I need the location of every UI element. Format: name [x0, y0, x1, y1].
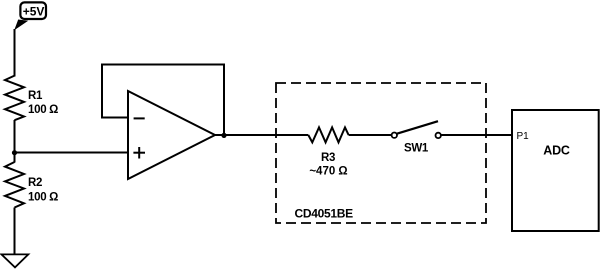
svg-text:~470 Ω: ~470 Ω: [309, 166, 347, 178]
wire op-amp output to R3: [215, 134, 308, 136]
wire SW1 to ADC pin P1: [441, 134, 512, 136]
resistor R1: [5, 76, 24, 121]
svg-text:+5V: +5V: [23, 5, 45, 19]
label R1 value: [28, 90, 58, 116]
wire R2 to ground: [14, 208, 16, 255]
power supply +5V: [14, 2, 46, 30]
node A junction dot: [12, 150, 17, 155]
svg-text:SW1: SW1: [404, 143, 429, 155]
resistor R3: [308, 127, 348, 142]
feedback wire output to inverting input: [102, 65, 224, 136]
svg-text:CD4051BE: CD4051BE: [295, 207, 354, 221]
ground: [2, 254, 29, 267]
svg-text:ADC: ADC: [543, 143, 570, 157]
wire +5V to R1: [14, 29, 16, 77]
svg-text:100 Ω: 100 Ω: [28, 192, 58, 204]
svg-text:P1: P1: [517, 131, 530, 142]
resistor R2: [5, 162, 24, 208]
wire R1 to node A: [14, 120, 16, 153]
svg-text:R1: R1: [28, 90, 43, 102]
op-amp U1: [128, 91, 215, 179]
wire R3 to SW1: [349, 134, 392, 136]
wire node A to R2: [14, 153, 16, 163]
wire node A to op-amp + input: [15, 152, 129, 154]
ADC box: [512, 110, 599, 231]
switch SW1: [392, 121, 441, 154]
label R2 value: [28, 177, 58, 204]
svg-text:100 Ω: 100 Ω: [28, 104, 58, 116]
output junction dot: [221, 133, 226, 138]
svg-text:R3: R3: [321, 152, 335, 164]
label R3 value: [309, 152, 347, 178]
svg-text:R2: R2: [28, 177, 42, 189]
CD4051BE dashed box: [276, 83, 486, 223]
